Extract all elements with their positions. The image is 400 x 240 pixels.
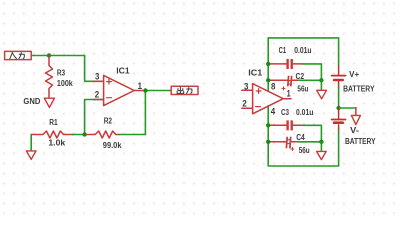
node junction pin4/C4	[266, 140, 270, 144]
svg-text:3: 3	[244, 81, 248, 91]
pin1 red stub	[134, 90, 144, 92]
svg-text:56u: 56u	[297, 84, 308, 93]
wire C3 right	[303, 125, 322, 142]
node junction input	[47, 53, 51, 57]
plus mark	[107, 79, 112, 84]
svg-text:100k: 100k	[57, 79, 73, 88]
svg-text:2: 2	[95, 90, 99, 100]
ground symbol mid lead	[355, 108, 357, 116]
wire R1 to junction	[73, 134, 85, 136]
wire R2 to output vertical	[119, 134, 145, 136]
svg-text:2: 2	[242, 99, 246, 109]
svg-text:8: 8	[271, 81, 275, 91]
node junction pin4/C3	[266, 123, 270, 127]
minus mark	[256, 106, 261, 108]
plus mark	[256, 89, 261, 94]
wire: V+ top rail	[268, 38, 338, 91]
svg-text:BATTERY: BATTERY	[343, 84, 375, 93]
svg-text:1.0k: 1.0k	[48, 139, 66, 148]
svg-text:1: 1	[287, 88, 291, 98]
capacitor C3	[269, 124, 286, 126]
svg-text:IC1: IC1	[116, 66, 130, 75]
svg-text:BATTERY: BATTERY	[345, 137, 376, 146]
wire: input net vertical to pin3	[85, 56, 104, 82]
svg-text:C3: C3	[281, 108, 290, 117]
C4 plus polarity mark	[291, 147, 294, 150]
resistor R1	[31, 131, 73, 138]
node junction C2 right	[319, 78, 323, 82]
op-amp IC1 pin3 red stub	[93, 80, 103, 82]
wire: output net	[145, 90, 172, 92]
svg-text:0.01u: 0.01u	[296, 108, 314, 117]
node junction inverting	[82, 132, 86, 136]
ground symbol lower-left	[30, 135, 32, 151]
svg-text:56u: 56u	[299, 146, 310, 155]
node junction mid batteries	[336, 106, 340, 110]
wire to ground C4	[320, 142, 322, 152]
node junction pin8/C1	[266, 62, 270, 66]
C2 plus polarity mark	[282, 87, 285, 90]
battery B1 V+	[332, 66, 346, 88]
wire: feedback vertical	[144, 91, 146, 135]
op-amp IC1 pin2 red stub	[93, 99, 103, 101]
node junction C4 right	[319, 140, 323, 144]
label 出力 box	[171, 86, 198, 94]
minus mark	[107, 97, 112, 99]
ground symbol C4	[317, 151, 327, 159]
label 入力 box	[5, 51, 32, 59]
battery B2 V-	[332, 108, 346, 130]
wire C4 right	[299, 141, 322, 143]
svg-text:GND: GND	[23, 97, 40, 106]
ground symbol mid	[351, 115, 360, 124]
svg-text:3: 3	[95, 72, 99, 82]
pin3 stub (nc)	[242, 89, 253, 91]
node junction output	[143, 88, 147, 92]
label 入力 text glyphs	[10, 53, 24, 59]
svg-text:99.0k: 99.0k	[103, 141, 122, 150]
svg-text:R1: R1	[49, 118, 58, 127]
svg-text:C1: C1	[279, 46, 287, 55]
wire C2 right	[299, 79, 322, 81]
resistor R2	[87, 131, 120, 138]
resistor R3	[46, 56, 53, 99]
svg-text:IC1: IC1	[248, 68, 263, 77]
wire: V- bottom rail	[268, 106, 338, 166]
svg-text:0.01u: 0.01u	[294, 46, 312, 55]
wire: pin2 net	[85, 100, 104, 135]
capacitor C4 (polarized)	[269, 141, 286, 143]
node junction pin8/C2	[266, 78, 270, 82]
svg-text:1: 1	[138, 81, 142, 91]
ground symbol C2	[317, 90, 327, 99]
svg-text:C4: C4	[296, 133, 305, 142]
svg-text:4: 4	[271, 106, 276, 116]
svg-text:R3: R3	[57, 69, 66, 78]
pin1 stub (nc)	[283, 98, 291, 100]
wire to ground C2	[320, 80, 322, 90]
capacitor C1	[269, 63, 286, 65]
svg-text:V+: V+	[349, 70, 359, 79]
wire: input net horizontal	[32, 55, 85, 57]
wire to ground mid	[339, 107, 356, 109]
label 出力 text glyphs	[177, 87, 192, 93]
svg-text:V-: V-	[350, 126, 359, 135]
svg-text:C2: C2	[296, 72, 305, 81]
op-amp IC1 power triangle	[253, 84, 284, 114]
svg-text:R2: R2	[104, 116, 113, 125]
pin2 stub (nc)	[242, 107, 253, 109]
V+ wire down to mid junction	[338, 88, 340, 109]
wire C1 right	[303, 64, 322, 80]
op-amp U=IC1 triangle	[104, 75, 135, 105]
ground symbol under R3	[44, 98, 54, 107]
capacitor C2 (polarized)	[269, 79, 287, 81]
